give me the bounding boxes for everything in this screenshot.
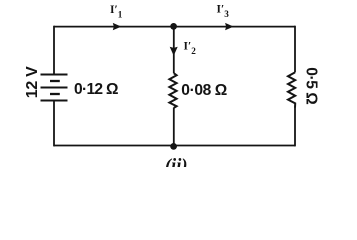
wire: right branch lower segment: [294, 108, 296, 147]
svg-text:0·08 Ω: 0·08 Ω: [181, 82, 227, 99]
wire: top horizontal net: [54, 26, 295, 28]
resistor R2 0.08 ohm (middle zigzag): [169, 73, 176, 108]
current arrow I'1 (rightward on top wire): [113, 23, 122, 30]
wire: right branch upper segment: [294, 26, 296, 73]
svg-text:(ii): (ii): [165, 156, 188, 167]
wire: left branch lower segment: [53, 101, 55, 147]
svg-text:0·12 Ω: 0·12 Ω: [74, 81, 119, 98]
node: bottom junction dot: [170, 143, 177, 150]
wire: middle branch lower segment: [173, 108, 175, 146]
resistor R3 0.5 ohm (right zigzag): [288, 72, 295, 107]
svg-text:I′1: I′1: [110, 4, 123, 20]
wire: middle branch upper segment: [173, 27, 175, 74]
svg-text:I′3: I′3: [217, 4, 230, 20]
svg-text:I′2: I′2: [184, 41, 197, 57]
battery B1 12 V (plates: long-short-long-short-long): [41, 75, 68, 101]
svg-text:0·5 Ω: 0·5 Ω: [302, 67, 319, 105]
wire: bottom horizontal net: [54, 145, 295, 147]
current arrow I'3 (rightward on top wire): [225, 23, 234, 30]
svg-text:12 V: 12 V: [24, 66, 41, 98]
node: top junction dot: [170, 23, 177, 30]
wire: left branch upper segment: [53, 26, 55, 75]
current arrow I'2 (downward on middle branch): [170, 47, 178, 56]
